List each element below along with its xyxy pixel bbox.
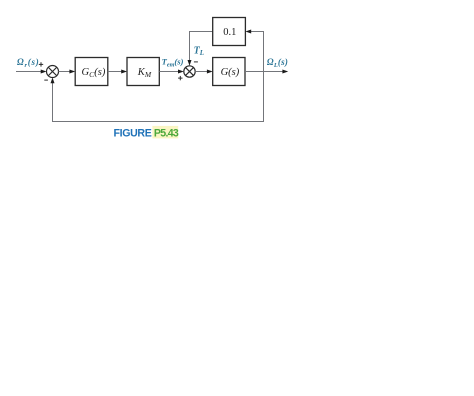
node Omega_r(s) input label xyxy=(17,57,39,69)
arrowhead into KM xyxy=(121,70,127,74)
svg-text:FIGURE: FIGURE xyxy=(114,128,152,140)
plus sign at summer S1 xyxy=(39,62,43,66)
arrowhead into GC(s) xyxy=(69,70,75,74)
caption highlight box xyxy=(152,126,178,138)
wire branch up to 0.1 block xyxy=(250,32,264,72)
arrowhead into summer S1 xyxy=(41,70,47,74)
wire feedback bottom path xyxy=(53,72,264,122)
svg-text:0.1: 0.1 xyxy=(223,27,236,38)
minus sign at summer S2 xyxy=(194,61,198,63)
block 0.1 xyxy=(213,18,246,46)
wire GC(s) to KM xyxy=(108,71,123,73)
block GC(s) xyxy=(75,58,108,86)
svg-text:P5.43: P5.43 xyxy=(154,128,179,140)
minus sign at summer S1 xyxy=(44,79,48,81)
block G(s) xyxy=(213,58,245,86)
svg-text:G(s): G(s) xyxy=(221,67,240,78)
wire KM to summer S2 xyxy=(159,71,179,73)
arrowhead into summer S2 xyxy=(178,70,184,74)
wire input to summer S1 xyxy=(16,71,42,73)
node T_em(s) label xyxy=(162,57,184,69)
wire S1 to GC(s) xyxy=(59,71,71,73)
node T_L label xyxy=(194,45,204,57)
wire G(s) to output xyxy=(245,71,284,73)
arrowhead into 0.1 block xyxy=(245,30,251,34)
summing junction S2 xyxy=(184,66,195,77)
arrowhead output xyxy=(282,70,288,74)
arrowhead down into summer S2 xyxy=(188,60,192,66)
arrowhead into G(s) xyxy=(207,70,213,74)
arrowhead up into summer S1 xyxy=(51,78,55,84)
node Omega_L(s) output label xyxy=(267,57,288,69)
wire S2 to G(s) xyxy=(195,71,208,73)
block KM xyxy=(127,58,159,86)
plus sign at summer S2 xyxy=(178,76,182,80)
summing junction S1 xyxy=(47,66,59,78)
wire from 0.1 block down into summer S2 xyxy=(190,32,213,62)
svg-text:GC(s): GC(s) xyxy=(82,67,106,79)
